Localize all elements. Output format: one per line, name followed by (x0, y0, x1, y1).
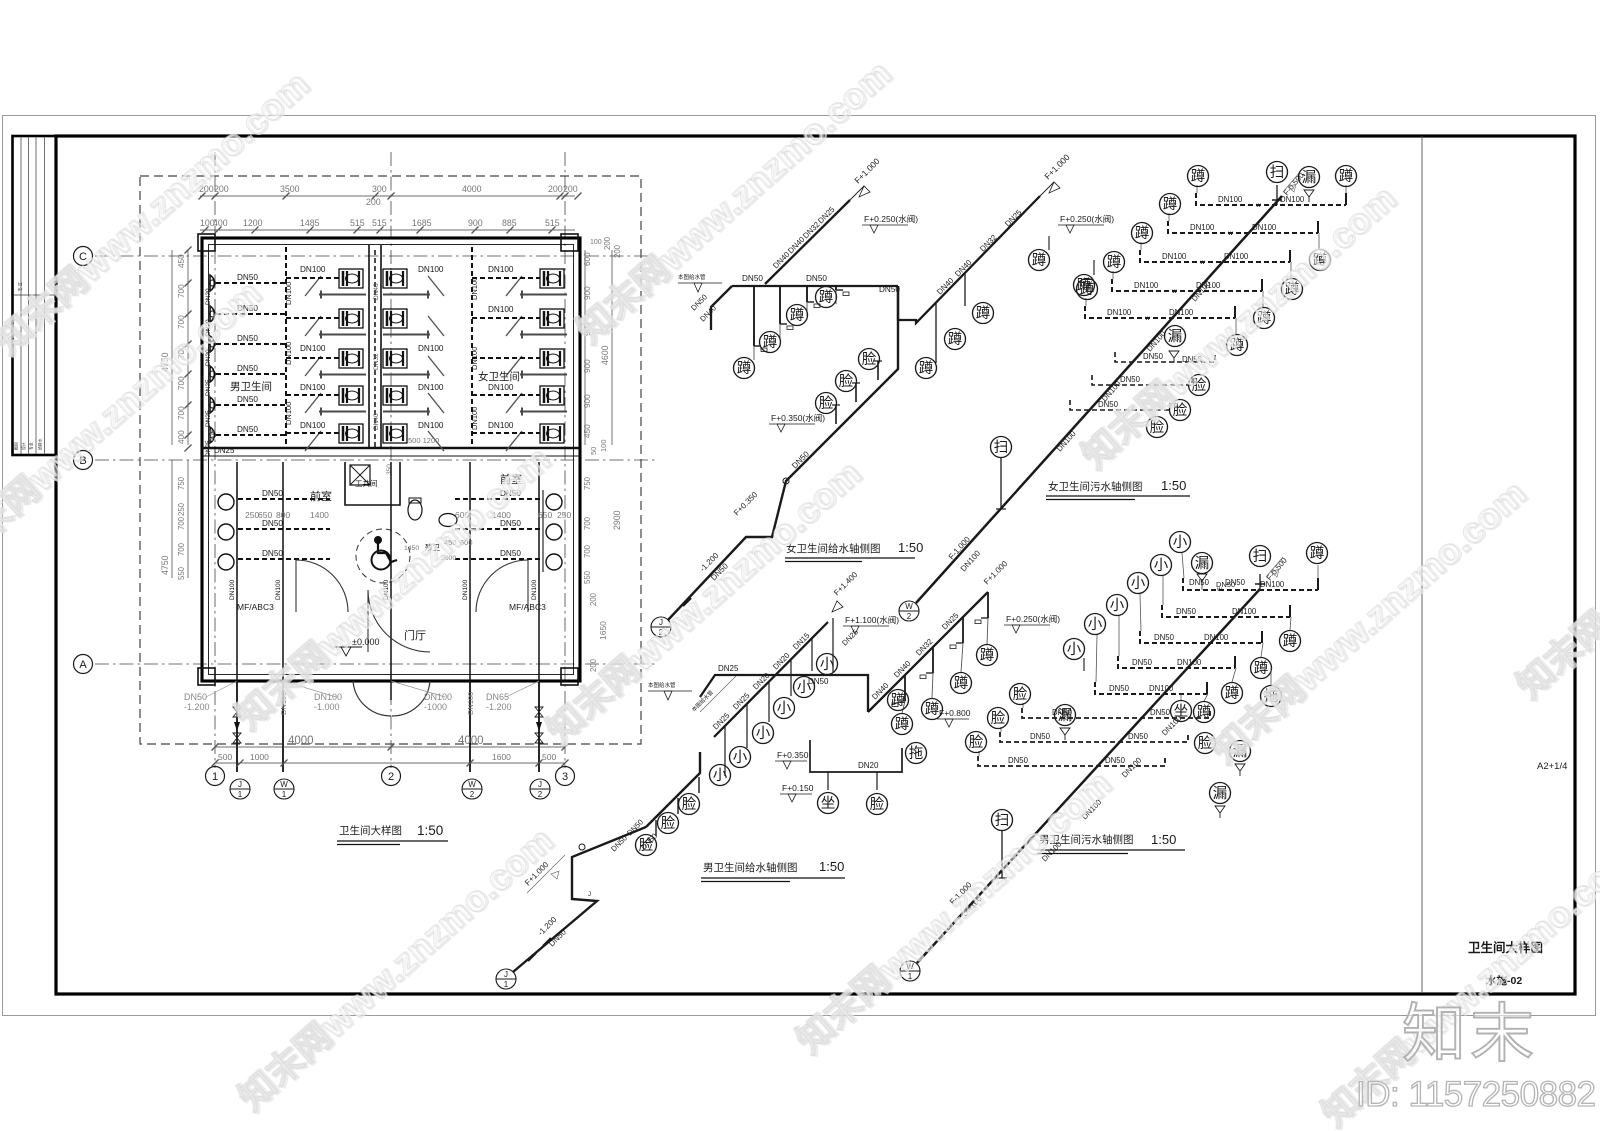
utility room walls (345, 462, 400, 505)
plan title underline 2 (337, 844, 400, 846)
plan title underline 1 (337, 840, 448, 842)
connector D row3 left (1140, 594, 1141, 631)
cleanout riser B (1000, 457, 1002, 509)
fixture 小 C urinal (753, 723, 774, 744)
drop to 坐 (827, 772, 829, 790)
svg-text:蹲: 蹲 (976, 305, 991, 322)
valve symbol (535, 707, 543, 717)
svg-text:200: 200 (589, 592, 598, 606)
svg-text:DN100: DN100 (418, 421, 444, 430)
leader DN65 (506, 681, 539, 697)
svg-text:拖: 拖 (909, 745, 924, 762)
fixture 蹲 A1a (734, 358, 755, 379)
signature strip column line 1 (20, 138, 22, 454)
pipe DN100 stall branch A row2 (286, 317, 339, 319)
axis bubble C (74, 247, 93, 266)
svg-text:知末: 知末 (1402, 998, 1538, 1070)
svg-text:蹲: 蹲 (1225, 685, 1240, 702)
funnel D top (1197, 574, 1207, 586)
svg-text:DN100: DN100 (275, 579, 282, 600)
svg-text:DN50: DN50 (500, 519, 521, 528)
svg-text:脸: 脸 (661, 815, 676, 832)
building inner wall line (209, 245, 574, 675)
junction circle C (579, 844, 585, 850)
svg-text:400: 400 (209, 430, 216, 441)
pipe DN50 branch B basin row1 (1115, 352, 1215, 362)
svg-text:350: 350 (386, 464, 393, 475)
svg-text:小: 小 (777, 700, 792, 717)
accessible toilet (408, 498, 422, 520)
flag stub B (1283, 172, 1300, 192)
fixture 蹲 A2c (973, 303, 994, 324)
fixture 蹲 A2e (1074, 275, 1095, 296)
fixture 蹲 B row5 right (1227, 335, 1248, 356)
axis bubble A (74, 655, 93, 674)
elevation F+1.100 C (843, 615, 899, 634)
stall partition female-C row3 (520, 371, 567, 379)
connector B row2 right down (1318, 233, 1320, 250)
riser bubble W/2 under plan (462, 779, 482, 799)
pipe sawtooth C2 (868, 592, 988, 712)
stall door male row4 (305, 393, 321, 413)
svg-text:小: 小 (1110, 597, 1125, 614)
svg-text:蹲: 蹲 (1080, 281, 1095, 298)
svg-text:漏: 漏 (1195, 555, 1210, 572)
svg-text:蹲: 蹲 (1032, 252, 1047, 269)
title underline B (1046, 495, 1190, 497)
svg-text:3: 3 (562, 771, 568, 783)
urinal U3 (210, 336, 216, 352)
elevation F+0.250 A2 (1058, 214, 1114, 233)
svg-text:-1.200: -1.200 (184, 702, 210, 712)
stall door female-C row4 (506, 393, 522, 413)
svg-text:DN50: DN50 (237, 395, 258, 404)
fixture 蹲 A2d (1029, 250, 1050, 271)
svg-text:2: 2 (907, 612, 912, 621)
svg-text:900: 900 (583, 286, 592, 300)
connector B row5 left (1085, 298, 1087, 306)
svg-text:100: 100 (599, 439, 608, 452)
svg-text:F+0.250(水阀): F+0.250(水阀) (1006, 614, 1060, 624)
pipe DN20 branch C (810, 740, 902, 772)
interior dividing wall upper line (202, 447, 580, 449)
svg-text:200: 200 (214, 184, 229, 194)
pipe branch D row1 (1183, 578, 1318, 590)
squat drop A1-2 (780, 286, 793, 338)
svg-text:脸: 脸 (870, 796, 885, 813)
squat toilet female col-B row3 (383, 349, 407, 368)
connector D row4 left (1118, 616, 1120, 656)
connector D row2 right down (1290, 617, 1291, 630)
pipe continuation center (390, 681, 392, 700)
svg-text:专业: 专业 (29, 442, 34, 450)
svg-text:DN40: DN40 (373, 413, 380, 430)
pipe sawtooth A1 (765, 200, 850, 284)
svg-text:小: 小 (1131, 575, 1146, 592)
svg-text:DN50: DN50 (262, 519, 283, 528)
svg-text:F+0.250(水阀): F+0.250(水阀) (1060, 214, 1114, 224)
flag F+1.000 A1 (850, 156, 882, 200)
floor drain funnel B top (1304, 190, 1314, 202)
pipe continuation below plan x=283 (282, 681, 284, 772)
drop to 脸 (876, 772, 878, 790)
pipe continuation below plan x=470 (469, 681, 471, 772)
pipe riser DN100 male (285, 247, 287, 448)
svg-text:A: A (79, 659, 87, 671)
svg-text:DN100: DN100 (488, 305, 514, 314)
signature strip frame (13, 136, 57, 455)
pipe DN50 basin branch left 1 (238, 498, 330, 500)
fixture 蹲 A1c (787, 305, 808, 326)
svg-text:DN100: DN100 (300, 383, 326, 392)
svg-text:450: 450 (583, 424, 592, 438)
fixture 蹲 B row5 left (1077, 279, 1098, 300)
watermark tile (0, 271, 271, 572)
svg-text:DN100: DN100 (1204, 633, 1229, 642)
connector B row1 right (1345, 185, 1347, 193)
fixture 蹲 C2-3 (922, 699, 943, 720)
chase wall right (380, 245, 382, 448)
svg-text:MF/ABC3: MF/ABC3 (237, 602, 274, 612)
watermark tile (1313, 834, 1600, 1131)
svg-text:蹲: 蹲 (737, 360, 752, 377)
svg-text:DN50: DN50 (808, 677, 829, 686)
svg-text:ID: 1157250882: ID: 1157250882 (1356, 1075, 1596, 1114)
axis line C (95, 255, 655, 257)
bottom dim line 2 (215, 762, 565, 764)
urinal U2 (210, 306, 216, 322)
svg-text:F+0.250(水阀): F+0.250(水阀) (864, 214, 918, 224)
top dim line 1 (200, 195, 575, 197)
stall door female-B row2 (428, 316, 444, 336)
fixture 蹲 A2b (945, 329, 966, 350)
svg-text:DN50: DN50 (806, 274, 827, 283)
pipe DN100 stall branch A row1 (286, 277, 339, 279)
svg-text:1600: 1600 (492, 752, 511, 762)
fixture 扫 B top (1267, 162, 1288, 183)
basin riser A 3 (877, 361, 879, 380)
pipe DN50 basin branch right 1 (455, 498, 543, 500)
stall partition male row4 (319, 408, 366, 416)
fixture 脸 D lower3 (966, 732, 987, 753)
elevation F+0.150 C (780, 783, 814, 802)
pipe drop J1 in plan (236, 462, 238, 681)
wash basin right 3 (546, 554, 562, 570)
svg-text:DN100: DN100 (284, 282, 293, 305)
squat toilet female col-C row1 (540, 269, 564, 288)
signature strip column line 2 (28, 138, 30, 454)
top riser D (1259, 574, 1261, 589)
svg-text:400: 400 (177, 430, 186, 444)
elevation F+0.250 C (1004, 614, 1060, 633)
svg-text:DN100: DN100 (418, 383, 444, 392)
entrance door arcs (353, 681, 430, 716)
svg-text:DN25: DN25 (718, 664, 739, 673)
stall partition male row3 (319, 371, 366, 379)
stall door male row5 (305, 431, 321, 451)
connector D lower left (978, 751, 980, 756)
svg-text:900: 900 (583, 359, 592, 373)
pipe branch D row4 (1118, 656, 1235, 668)
pipe DN50 urinal branch 1 (216, 282, 286, 284)
svg-text:700: 700 (177, 406, 186, 420)
svg-text:700: 700 (583, 516, 592, 530)
svg-text:4000: 4000 (462, 184, 482, 194)
watermark tile (1073, 176, 1405, 477)
fixture 脸 A1 (816, 393, 837, 414)
title underline D2 (1037, 853, 1128, 855)
basin riser top tick A 2 (852, 382, 860, 384)
svg-text:600: 600 (583, 252, 592, 266)
svg-text:-1.200: -1.200 (486, 702, 512, 712)
left dim line 4750 lower (171, 460, 173, 578)
stub 坐 D (1180, 694, 1182, 700)
fixture 小 C urinal (774, 698, 795, 719)
svg-text:1000: 1000 (250, 752, 269, 762)
check arrow (536, 722, 542, 731)
urinal drop C6 (832, 618, 834, 673)
branch B row3 right hook (1289, 250, 1291, 262)
fixture 蹲 B row1 right (1336, 166, 1357, 187)
stall partition female-C row1 (520, 291, 567, 299)
svg-text:100: 100 (590, 239, 602, 246)
pipe DN50 urinal branch 3 (216, 343, 286, 345)
svg-text:DN100: DN100 (1149, 684, 1174, 693)
svg-text:DN100: DN100 (284, 402, 293, 425)
svg-text:DN50: DN50 (742, 274, 763, 283)
fixture 蹲 C2-2 (951, 673, 972, 694)
svg-text:DN100: DN100 (1218, 195, 1243, 204)
watermark tile (568, 51, 900, 352)
pipe DN100 branch B row2 (1168, 221, 1318, 233)
basin counter right (542, 490, 544, 572)
funnel D lower (1060, 728, 1070, 740)
urinal U5 (210, 397, 216, 413)
svg-text:1400: 1400 (310, 510, 329, 520)
svg-text:F+0.150: F+0.150 (782, 783, 814, 793)
svg-text:A2+1/4: A2+1/4 (1537, 761, 1567, 772)
pipe drop J2 in plan (538, 462, 540, 681)
stall partition female-B row4 (383, 408, 430, 416)
svg-text:500: 500 (218, 752, 232, 762)
svg-text:1:50: 1:50 (1151, 832, 1176, 847)
basin riser C 3 (698, 777, 700, 793)
stall partition female-C row2 (520, 331, 567, 339)
title underline C (701, 877, 845, 879)
svg-text:DN50: DN50 (1132, 658, 1153, 667)
fixture 小 D extra (1064, 639, 1085, 660)
svg-text:蹲: 蹲 (1254, 660, 1269, 677)
valve tick on main A (683, 598, 691, 606)
connector D row1 left (1182, 553, 1184, 578)
svg-text:1: 1 (238, 790, 243, 799)
svg-text:DN50: DN50 (1176, 607, 1197, 616)
valve symbol (535, 733, 543, 743)
bottom dim line 1 (215, 746, 565, 748)
svg-text:J: J (238, 780, 242, 789)
svg-text:W: W (468, 780, 476, 789)
svg-text:DN20: DN20 (858, 761, 879, 770)
plan drawing boundary dashed rect (140, 176, 641, 744)
svg-text:1:50: 1:50 (819, 859, 844, 874)
squat drop A2-2 (964, 274, 966, 306)
svg-text:DN100: DN100 (300, 421, 326, 430)
svg-text:400: 400 (213, 218, 228, 228)
fixture 脸 C1 (636, 835, 657, 856)
chase riser pipe (374, 250, 376, 448)
fixture 脸 D lower2 (988, 708, 1009, 729)
fixture 扫 D top (1250, 546, 1271, 567)
watermark tile (230, 818, 562, 1119)
pipe DN50 basin branch right 2 (455, 528, 543, 530)
svg-text:-1.000: -1.000 (314, 702, 340, 712)
svg-text:DN100: DN100 (1232, 607, 1257, 616)
fixture 蹲 B row2 right (1310, 250, 1331, 271)
svg-text:小: 小 (1154, 557, 1169, 574)
svg-text:DN40: DN40 (373, 283, 380, 300)
fixture 脸 D lower1 (1010, 684, 1031, 705)
fixture 蹲 B row4 left (1104, 252, 1125, 273)
svg-text:蹲: 蹲 (790, 307, 805, 324)
svg-text:DN100: DN100 (1177, 658, 1202, 667)
connector B row3 left (1140, 242, 1142, 250)
svg-text:男卫生间给水轴侧图: 男卫生间给水轴侧图 (703, 861, 798, 874)
fixture 蹲 B row2 left (1160, 194, 1181, 215)
squat toilet female col-C row4 (540, 386, 564, 405)
svg-text:4600: 4600 (600, 345, 610, 365)
pipe DN50 urinal branch 4 (216, 373, 286, 375)
svg-text:蹲: 蹲 (1135, 225, 1150, 242)
stub 小 D extra (1083, 658, 1085, 671)
fixture 小 D row3 (1128, 573, 1149, 594)
svg-text:500: 500 (542, 752, 556, 762)
svg-text:DN65: DN65 (486, 692, 509, 702)
basin riser A 2 (855, 383, 857, 402)
wash basin left 3 (218, 554, 234, 570)
pipe DN100 branch B row4 (1112, 279, 1262, 291)
pipe DN100 stall branch A row4 (286, 394, 339, 396)
axis line B (95, 459, 655, 461)
svg-text:300: 300 (372, 184, 387, 194)
svg-text:蹲: 蹲 (1310, 545, 1325, 562)
fixture 小 C urinal (817, 654, 838, 675)
stall partition female-B row1 (383, 291, 430, 299)
svg-text:650: 650 (258, 510, 272, 520)
fixture 拖 C (906, 743, 927, 764)
svg-text:脸: 脸 (819, 395, 834, 412)
connector B row2 left (1168, 213, 1170, 221)
fixture 蹲 D row2 right (1280, 631, 1301, 652)
svg-text:DN100: DN100 (300, 344, 326, 353)
stall partition male row1 (319, 291, 366, 299)
svg-text:工共间: 工共间 (355, 479, 378, 488)
urinal drop C2 (746, 704, 748, 748)
svg-text:本图给水管: 本图给水管 (648, 681, 676, 689)
squat toilet male col-A row5 (339, 424, 363, 443)
branch D row1 right hook (1317, 578, 1319, 590)
svg-text:F+1.100(水阀): F+1.100(水阀) (845, 615, 899, 625)
svg-text:蹲: 蹲 (1283, 633, 1298, 650)
top riser B (1276, 185, 1278, 205)
svg-text:小: 小 (1173, 534, 1188, 551)
squat toilet male col-A row2 (339, 309, 363, 328)
connector B row5 right down (1235, 318, 1237, 335)
svg-text:漏: 漏 (1302, 169, 1317, 186)
fixture 拖 D (1261, 686, 1282, 707)
fixture 蹲 B row3 left (1132, 223, 1153, 244)
wash basin right 2 (546, 524, 562, 540)
svg-text:漏: 漏 (1058, 707, 1073, 724)
pipe branch D row2 (1162, 605, 1290, 617)
bubble J/1 diagram C (496, 969, 516, 989)
wall column pad (561, 234, 578, 251)
fixture 脸 D1 (1195, 733, 1216, 754)
bubble J/2 diagram A (651, 617, 671, 637)
sleeve tick D (1255, 583, 1265, 585)
svg-text:50: 50 (589, 447, 598, 455)
door arc hall main (368, 590, 430, 652)
svg-text:DN50: DN50 (1008, 756, 1029, 765)
svg-text:设计: 设计 (21, 442, 26, 450)
pipe drop W1 in plan (282, 462, 284, 681)
stub 拖 D (1270, 668, 1272, 685)
check arrow (234, 722, 240, 731)
svg-text:DN50: DN50 (237, 425, 258, 434)
pipe drop W2 in plan (469, 462, 471, 681)
title underline C2 (701, 881, 790, 883)
squat drop C2-1 (975, 592, 988, 644)
squat drop C2-4 (892, 675, 905, 713)
axis bubble B (74, 451, 93, 470)
svg-text:DN100: DN100 (1162, 252, 1187, 261)
svg-text:F+0.350: F+0.350 (777, 750, 809, 760)
connector B row3 right down (1290, 262, 1292, 279)
svg-text:700: 700 (583, 544, 592, 558)
pipe DN100 stall branch A row5 (286, 432, 339, 434)
stall door female-B row5 (428, 431, 444, 451)
door arc anteroom left (296, 560, 348, 612)
watermark tile (1203, 471, 1535, 772)
squat toilet female col-B row2 (383, 309, 407, 328)
title underline D (1037, 849, 1185, 851)
stall partition female-B row2 (383, 331, 430, 339)
svg-text:DN50: DN50 (1128, 732, 1149, 741)
svg-text:DN100: DN100 (466, 692, 475, 715)
svg-text:DN100: DN100 (1224, 252, 1249, 261)
svg-text:200: 200 (366, 197, 381, 207)
svg-text:DN50: DN50 (879, 285, 900, 294)
svg-text:4000: 4000 (458, 735, 484, 747)
wash basin left 1 (218, 494, 234, 510)
squat drop C2-2 (950, 617, 963, 672)
fixture 蹲 D row5 right (1194, 702, 1215, 723)
fixture 脸 A2 (836, 371, 857, 392)
fixture 小 D row4 (1107, 595, 1128, 616)
svg-text:蹲: 蹲 (980, 647, 995, 664)
pipe riser DN100 female (471, 247, 473, 448)
pipe DN100 stall branch A row3 (286, 357, 339, 359)
svg-text:885: 885 (502, 218, 517, 228)
connector D row4 right down (1232, 668, 1236, 682)
fixture 漏 D1 (1230, 741, 1251, 762)
wash basin right 1 (546, 494, 562, 510)
svg-text:DN100: DN100 (488, 421, 514, 430)
svg-text:F+0.350(水阀): F+0.350(水阀) (771, 413, 825, 423)
squat toilet male col-A row3 (339, 349, 363, 368)
wall column pad (198, 234, 215, 251)
svg-text:2900: 2900 (612, 510, 622, 530)
svg-text:DN50: DN50 (1120, 375, 1141, 384)
